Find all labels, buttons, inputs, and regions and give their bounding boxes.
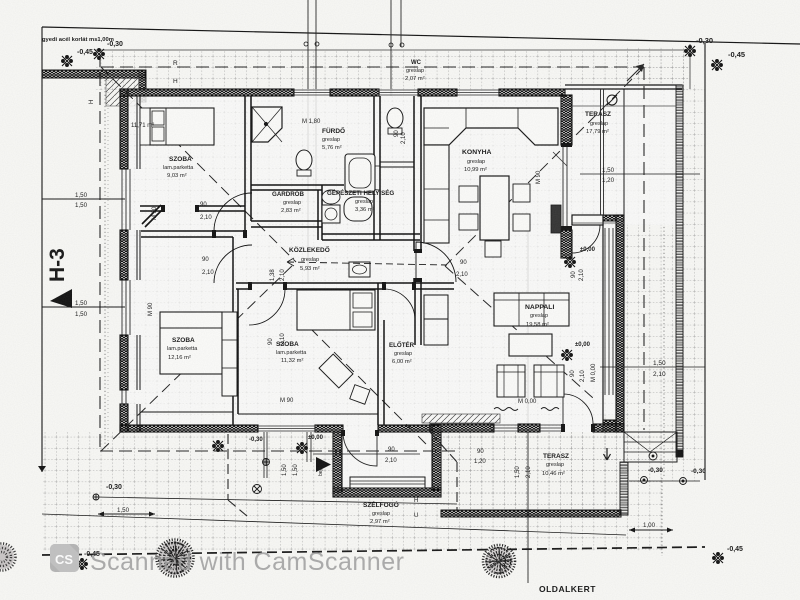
dim line right 1,50/2,10 [600, 366, 705, 368]
section circles [304, 42, 404, 47]
bottom wall segment 3 right of porch door [378, 425, 430, 432]
grid terrace bottom [441, 432, 621, 511]
wall szoba1/furdo vertical [245, 96, 251, 231]
left wall inner leaf [137, 96, 140, 432]
corridor top wall east part [322, 234, 420, 240]
window left W5 [122, 280, 130, 335]
szoba3 bottom inner [141, 411, 233, 413]
section line C vertical through nappali [527, 230, 529, 583]
window W3 top [457, 90, 499, 95]
site boundary left line [41, 27, 43, 472]
roof valley dashed D2 [101, 262, 296, 451]
nappali south door gap then corner [593, 424, 624, 432]
wavy threshold b [541, 408, 559, 411]
roof valley dashed D6 [310, 328, 430, 448]
wardrobe szoba1 left [140, 108, 150, 145]
dotted strip right [663, 90, 665, 478]
roof valley dashed D1 [101, 67, 296, 262]
left wall outer leaf hatch a [120, 89, 128, 169]
right wall bottom corner hatch [603, 420, 616, 432]
top wall segment 3 [418, 89, 457, 96]
window left W6 small [122, 390, 126, 404]
right wall inner line [602, 215, 604, 432]
dim line bottom-left 1,50 [98, 513, 155, 515]
wall furdo/wc vertical [374, 96, 380, 240]
bottom wall left segment [120, 425, 258, 432]
shower corner furdo [252, 107, 282, 142]
nappali south wall seg a [430, 424, 494, 432]
porch bottom wall [333, 488, 441, 497]
markers line bottom right [629, 480, 700, 482]
entry arrow [316, 457, 331, 472]
eave dashed bottom [100, 450, 457, 452]
washer gepeszeti [322, 205, 340, 223]
eave corner arrow NE [627, 64, 644, 81]
terrace upper inner line [572, 105, 676, 107]
nappali south glass opening b [540, 425, 563, 431]
long pavement line [42, 514, 626, 535]
section line A left [307, 0, 309, 283]
sink furdo [322, 190, 340, 204]
section line A right [315, 0, 317, 190]
cabinet kitchen right [551, 205, 561, 233]
door arc nappali terrace south [563, 394, 593, 424]
toilet wc [387, 108, 403, 128]
wall furdo bottom [251, 185, 344, 190]
dim line 1,00 [629, 529, 673, 531]
armchair nappali 2 [534, 365, 564, 397]
toilet furdo [296, 150, 312, 170]
eave dashed top [101, 66, 644, 68]
kitchen terrace glass door [563, 145, 567, 230]
tree 2 [483, 545, 515, 577]
corridor bottom wall [236, 283, 454, 289]
roof valley dashed D4 [445, 266, 593, 398]
desk szoba2 rotated [319, 354, 353, 388]
wall szoba1 bottom [140, 206, 245, 211]
top wall segment 2 [330, 89, 379, 96]
left wall outer leaf hatch c [120, 335, 128, 390]
top wall segment 1 [120, 89, 294, 96]
bathtub furdo [345, 154, 375, 192]
wall szoba3 top [141, 231, 245, 237]
bed szoba1 [150, 108, 214, 145]
right wall east outer hatch leaf [616, 215, 624, 432]
tree 3 partial left edge [0, 544, 16, 571]
paving edge line bottom [96, 497, 457, 504]
door arc corridor west lower [214, 245, 252, 283]
terrace railing right ladder band [676, 85, 683, 457]
door arc terrace nook [572, 225, 600, 253]
walkway edges front of szoba3 [264, 432, 311, 478]
paved grid top strip [95, 50, 690, 90]
wavy threshold a [494, 408, 518, 411]
corridor axis dashed [287, 262, 447, 265]
wall gardrob east [318, 185, 322, 240]
right wall window lines [605, 228, 613, 395]
bottom wall segment 2 [315, 425, 343, 432]
dotted strip left [104, 80, 106, 450]
porch left wall [333, 432, 342, 492]
window W1 top [294, 90, 330, 95]
window left W4 [122, 169, 130, 230]
steps terrace right [624, 432, 677, 462]
wall szoba3/szoba2 divider [233, 237, 238, 425]
section triangle marker [50, 289, 72, 308]
dim line left upper [42, 198, 125, 200]
left wall outer leaf hatch b [120, 230, 128, 280]
porch door arc [343, 432, 377, 466]
faint grid inside house [120, 89, 624, 432]
camscanner logo [50, 544, 79, 572]
survey markers X type [62, 46, 724, 570]
eloter wardrobe [424, 295, 448, 319]
section line B left [390, 0, 392, 96]
kitchen door arc [416, 242, 456, 282]
kitchen west wall [414, 96, 421, 283]
chairs [459, 186, 478, 202]
bottom window W7 [258, 426, 315, 431]
eave dashed right [643, 67, 645, 430]
coffee table nappali [509, 334, 552, 356]
room interiors white mask [120, 85, 682, 497]
terrace upper west floor edge [572, 222, 624, 224]
door jambs [161, 205, 165, 212]
step hatch outside nappali SW [422, 414, 500, 423]
drain symbol terrace [607, 95, 617, 105]
sofa nappali [494, 293, 569, 326]
left boundary end arrow [38, 466, 46, 472]
terrace2 bottom band [441, 510, 621, 517]
eave dashed left [99, 54, 101, 451]
nappali south glass opening a [490, 425, 518, 431]
sink corridor [349, 262, 370, 277]
szoba2 bottom inner [238, 413, 378, 415]
circle cross markers [93, 452, 687, 500]
kitchen counter [424, 108, 558, 145]
kitchen left column cabinets [424, 145, 449, 243]
site boundary right line [704, 43, 706, 480]
railing bottom cap [676, 450, 683, 457]
bed szoba3 [160, 312, 222, 374]
site boundary top line [42, 27, 800, 44]
paved grid right strip [565, 85, 705, 225]
corridor top wall west part [251, 221, 322, 227]
bed szoba2 [297, 290, 375, 330]
wc door arc [356, 166, 380, 190]
porch right wall [432, 425, 441, 490]
door leaf szoba1 [142, 205, 164, 227]
fence band top-left [42, 70, 145, 78]
terrace west inner double line [601, 89, 604, 215]
porch dim line [313, 453, 420, 455]
down arrow terrace steps [604, 448, 611, 460]
nappali NE top wall [572, 215, 603, 225]
wall szoba2/eloter [378, 283, 384, 425]
porch bottom window [350, 477, 425, 488]
street line [42, 547, 705, 555]
paved grid bottom area [42, 432, 662, 551]
boiler gepeszeti [344, 197, 372, 221]
door arc eloter-szoba2 [384, 289, 415, 320]
tree 1 [157, 540, 194, 577]
armchair nappali 1 [497, 365, 525, 397]
window W2 top [379, 90, 418, 95]
roof valley dashed D3 [445, 67, 644, 266]
dining table [480, 176, 509, 240]
dim line left lower [42, 306, 125, 308]
section line B right [400, 0, 402, 47]
eave dashed porch right [456, 462, 458, 511]
eave dashed porch corner [430, 432, 457, 462]
dim line terrace right [580, 173, 700, 175]
fence end post [139, 70, 146, 102]
kitchen-terrace wall hatch top [561, 95, 572, 145]
left wall outer leaf hatch d [120, 404, 128, 432]
kitchen-terrace wall hatch bottom [561, 230, 572, 258]
corner ramp hatch NW [106, 78, 139, 106]
door arc szoba2 [249, 289, 285, 325]
terrace top edge double line [565, 85, 682, 89]
top wall segment 4 [499, 89, 565, 96]
wall eloter/nappali [415, 283, 421, 345]
terrace2 right ladder [620, 462, 628, 515]
door arc corridor west upper [214, 193, 252, 231]
eave dashed porch left [227, 434, 229, 500]
wc bottom wall [380, 162, 414, 167]
paving top edge line [95, 49, 690, 51]
nappali south wall seg b [518, 424, 540, 432]
